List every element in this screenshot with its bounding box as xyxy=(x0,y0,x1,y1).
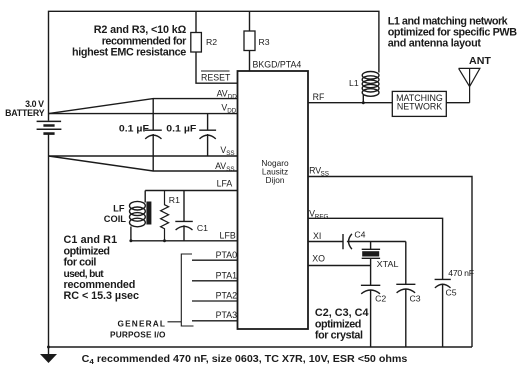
svg-text:XO: XO xyxy=(312,254,325,264)
svg-text:R2 and R3, <10 kΩ: R2 and R3, <10 kΩ xyxy=(94,24,187,36)
svg-text:COIL: COIL xyxy=(104,214,127,224)
svg-text:0.1 µF: 0.1 µF xyxy=(166,123,197,133)
svg-text:recommended for: recommended for xyxy=(102,35,187,47)
svg-text:PURPOSE I/O: PURPOSE I/O xyxy=(110,329,166,339)
svg-text:Dijon: Dijon xyxy=(266,175,285,185)
svg-text:recommended: recommended xyxy=(64,279,136,291)
svg-text:LFA: LFA xyxy=(217,179,233,189)
svg-text:L1: L1 xyxy=(349,78,359,88)
svg-text:C3: C3 xyxy=(410,294,421,304)
svg-text:XTAL: XTAL xyxy=(377,259,399,269)
svg-text:R3: R3 xyxy=(259,37,270,47)
svg-text:SS: SS xyxy=(226,150,234,157)
svg-text:SS: SS xyxy=(226,166,234,173)
svg-text:LF: LF xyxy=(113,204,125,214)
svg-text:R1: R1 xyxy=(169,195,180,205)
svg-text:NETWORK: NETWORK xyxy=(397,101,442,111)
svg-text:C5: C5 xyxy=(446,288,457,298)
svg-text:0.1 µF: 0.1 µF xyxy=(119,123,150,133)
svg-text:C4: C4 xyxy=(354,229,365,239)
svg-text:C1: C1 xyxy=(197,223,208,233)
svg-text:GENERAL: GENERAL xyxy=(118,318,166,328)
svg-text:highest EMC resistance: highest EMC resistance xyxy=(72,47,186,59)
svg-text:C2, C3, C4: C2, C3, C4 xyxy=(315,307,369,319)
svg-text:ANT: ANT xyxy=(469,56,492,67)
svg-text:XI: XI xyxy=(313,231,321,241)
svg-text:for coil: for coil xyxy=(64,257,97,269)
svg-text:BATTERY: BATTERY xyxy=(5,108,45,118)
svg-text:AV: AV xyxy=(215,161,226,171)
svg-text:PTA2: PTA2 xyxy=(216,291,237,301)
svg-text:LFB: LFB xyxy=(220,231,236,241)
svg-text:optimized: optimized xyxy=(315,318,362,330)
svg-text:R2: R2 xyxy=(206,37,217,47)
svg-text:optimized: optimized xyxy=(64,245,111,257)
svg-text:C4 recommended 470 nF, size 06: C4 recommended 470 nF, size 0603, TC X7R… xyxy=(82,354,408,366)
svg-text:470 nF: 470 nF xyxy=(448,268,474,278)
svg-text:for crystal: for crystal xyxy=(315,330,363,342)
svg-text:C1 and R1: C1 and R1 xyxy=(64,234,118,246)
svg-text:RESET: RESET xyxy=(201,72,231,82)
svg-text:RF: RF xyxy=(313,92,325,102)
svg-text:RV: RV xyxy=(309,165,321,175)
svg-text:PTA0: PTA0 xyxy=(216,250,237,260)
svg-text:DD: DD xyxy=(228,93,238,100)
svg-text:AV: AV xyxy=(217,88,228,98)
svg-text:PTA3: PTA3 xyxy=(216,310,237,320)
svg-text:DD: DD xyxy=(227,107,237,114)
svg-text:SS: SS xyxy=(321,170,329,177)
svg-text:PTA1: PTA1 xyxy=(216,271,237,281)
svg-text:C2: C2 xyxy=(375,294,386,304)
svg-text:REG: REG xyxy=(315,213,329,220)
svg-text:BKGD/PTA4: BKGD/PTA4 xyxy=(253,59,302,69)
svg-text:RC < 15.3 µsec: RC < 15.3 µsec xyxy=(64,290,140,302)
svg-text:and antenna layout: and antenna layout xyxy=(388,38,482,50)
